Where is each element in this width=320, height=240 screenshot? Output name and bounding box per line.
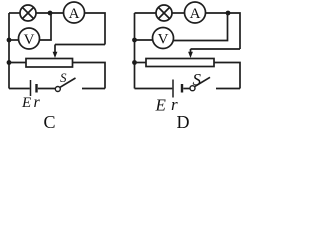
svg-text:E: E: [155, 96, 167, 115]
voltmeter V (C): [19, 28, 40, 49]
wire lamp to node (C): [36, 12, 64, 14]
wire lamp to ammeter (D): [172, 12, 185, 14]
wire top-left segment (C): [9, 12, 20, 14]
node junction dot after ammeter (D): [226, 11, 231, 16]
node dot left at rheostat (C): [7, 60, 12, 65]
wire slider feed (D): [191, 48, 241, 50]
node dot left at rheostat (D): [132, 60, 137, 65]
switch S (D): [190, 77, 210, 90]
ammeter A (D): [185, 2, 206, 23]
svg-text:S: S: [60, 70, 67, 85]
wire rheostat right end down (C): [73, 63, 106, 89]
svg-text:C: C: [44, 112, 56, 132]
wire bottom-left (D): [135, 88, 173, 90]
node dot left at voltmeter (D): [132, 38, 137, 43]
wire top-left segment (D): [135, 12, 157, 14]
lamp (D): [156, 5, 172, 21]
svg-text:A: A: [190, 6, 201, 22]
svg-text:A: A: [69, 6, 80, 22]
rheostat slider arrow (C): [53, 45, 58, 59]
node dot left at voltmeter (C): [7, 38, 12, 43]
lamp (C): [20, 5, 36, 21]
wire voltmeter left (C): [9, 39, 19, 41]
wire rheostat left (D): [135, 62, 147, 64]
wire slider feed (C): [55, 44, 105, 46]
battery E r (D): [173, 80, 182, 98]
ammeter A (C): [64, 2, 85, 23]
voltmeter V (D): [153, 28, 174, 49]
wire voltmeter right up to node (D): [173, 13, 227, 41]
wire ammeter to top-right corner down (C): [85, 13, 106, 45]
wire voltmeter left (D): [135, 39, 153, 41]
node junction dot (C): [48, 11, 53, 16]
rheostat R (C): [26, 59, 73, 68]
svg-text:V: V: [24, 32, 35, 48]
wire battery to switch (C): [38, 88, 55, 90]
wire ammeter to top-right corner down (D): [206, 13, 241, 49]
wire rheostat left (C): [9, 62, 26, 64]
wire switch to bottom-right corner (C): [82, 88, 105, 90]
wire left vertical (D): [134, 13, 136, 89]
wire battery to switch (D): [183, 88, 190, 90]
wire voltmeter right up to node (C): [39, 13, 51, 40]
wire left vertical (C): [8, 13, 10, 89]
wire bottom-left (C): [9, 88, 30, 90]
rheostat R (D): [146, 59, 214, 67]
svg-text:V: V: [158, 32, 169, 48]
svg-text:r: r: [34, 94, 41, 111]
svg-text:S: S: [193, 70, 202, 89]
svg-text:E: E: [21, 95, 31, 111]
svg-text:D: D: [177, 112, 190, 132]
wire switch to bottom-right corner (D): [216, 88, 240, 90]
wire rheostat right end down (D): [214, 63, 240, 89]
switch S (C): [55, 78, 75, 92]
rheostat slider arrow (D): [188, 49, 193, 58]
battery E r (C): [31, 80, 37, 96]
